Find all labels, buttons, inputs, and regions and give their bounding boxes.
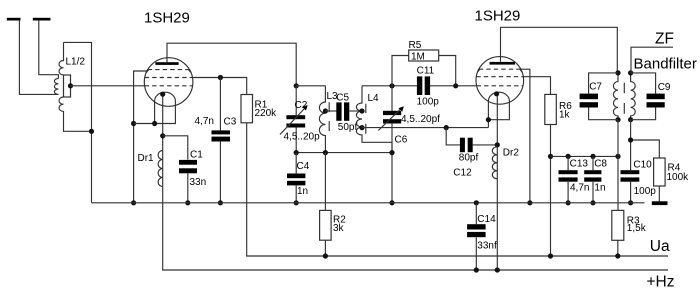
wire C13 to ground — [567, 182, 569, 203]
node ground rail V1 column — [131, 200, 136, 205]
capacitor C13 — [559, 170, 578, 174]
bandfilter secondary coil — [631, 73, 636, 120]
resistor R5 — [392, 56, 456, 86]
wire g3/filament return V1 — [134, 71, 147, 203]
node secondary top — [628, 70, 633, 75]
bandfilter primary coil — [613, 73, 618, 120]
node filament top V2 — [494, 91, 499, 96]
wire grid1 tap to tube V1 — [71, 85, 145, 87]
svg-text:C10: C10 — [633, 160, 652, 171]
resistor R6 — [545, 94, 557, 124]
wire screen V1 to R1/C3 — [193, 78, 247, 95]
bandfilter core — [623, 83, 625, 114]
node tank bottom C4 — [294, 150, 299, 155]
node Dr2 top — [495, 142, 500, 147]
svg-text:+Hz: +Hz — [647, 274, 675, 291]
capacitor C2 arrow — [280, 109, 305, 135]
node C3 ground — [218, 200, 223, 205]
grid g1 V1 dashed — [145, 85, 193, 87]
svg-text:C9: C9 — [658, 82, 671, 93]
ground rail — [92, 202, 645, 204]
capacitor C11 — [417, 76, 422, 95]
ground terminal bar R4 — [652, 201, 668, 205]
wire L1/2 top loop — [64, 42, 92, 202]
inductor Dr1 — [158, 151, 163, 187]
node tank bottom right — [389, 150, 394, 155]
wire C5 left — [325, 110, 337, 112]
wire secondary bottom to C10/R4 — [631, 120, 660, 171]
wire C9 top — [631, 73, 656, 94]
wire C4 to ground — [295, 185, 297, 203]
anode plate V2 — [490, 62, 516, 65]
wire C6 upper lead — [391, 86, 393, 112]
svg-text:50pf: 50pf — [338, 122, 358, 133]
svg-text:1k: 1k — [559, 110, 571, 121]
wire C3 upper lead — [219, 78, 221, 131]
svg-text:100p: 100p — [417, 97, 440, 108]
svg-text:Bandfilter: Bandfilter — [634, 56, 697, 73]
node filament top V1 — [160, 92, 165, 97]
node C10 ground — [628, 200, 633, 205]
wire primary bottom down — [617, 120, 619, 211]
wire supply row to bandfilter — [551, 155, 619, 157]
svg-text:L4: L4 — [368, 93, 380, 104]
node C13 top — [566, 154, 571, 159]
svg-text:C3: C3 — [224, 117, 237, 128]
grid g2 V2 dashed — [476, 76, 523, 78]
wire C12 left lead — [446, 128, 460, 145]
svg-text:33nf: 33nf — [477, 240, 497, 251]
svg-text:C14: C14 — [477, 214, 496, 225]
svg-text:80pf: 80pf — [459, 152, 479, 163]
node filament rail join V1 — [131, 121, 136, 126]
node C14 +Hz — [474, 267, 479, 272]
tube V1 1SH29 envelope — [144, 58, 193, 107]
node primary top — [615, 70, 620, 75]
node R6/Ua — [548, 253, 553, 258]
svg-text:1n: 1n — [594, 182, 605, 193]
grid g3 V1 dashed — [148, 69, 190, 71]
wire R4 bottom — [658, 186, 660, 201]
svg-text:C2: C2 — [295, 100, 308, 111]
resistor R4 — [654, 158, 666, 186]
wire R2 bottom to Ua rail — [324, 240, 326, 256]
node L4 tap lower — [359, 125, 364, 130]
wire C2 upper lead — [295, 86, 297, 115]
node filament legs V2 — [486, 117, 491, 122]
svg-text:4,5..20pf: 4,5..20pf — [401, 114, 440, 125]
svg-text:Dr2: Dr2 — [503, 147, 520, 158]
node primary bottom — [615, 117, 620, 122]
wire screen V2 to R6 — [523, 77, 550, 95]
node C13 ground — [566, 200, 571, 205]
svg-text:C13: C13 — [570, 159, 589, 170]
capacitor C1 — [179, 160, 197, 165]
wire tank bottom — [296, 153, 392, 203]
svg-text:220k: 220k — [255, 108, 278, 119]
node filament left leg V1 — [152, 121, 157, 126]
antenna terminal 2 — [33, 18, 51, 21]
node C3 junction — [218, 75, 223, 80]
resistor R3 — [612, 210, 624, 240]
node C10 top — [628, 137, 633, 142]
filament V1 right leg — [134, 101, 176, 124]
wire C14 upper lead — [475, 203, 477, 224]
resistor R2 — [320, 210, 332, 240]
wire C3 to ground — [219, 141, 221, 203]
svg-text:1SH29: 1SH29 — [144, 10, 190, 27]
wire C14 lower lead to +Hz — [475, 237, 477, 270]
filament V2 right leg — [488, 101, 509, 120]
resistor R1 — [241, 95, 253, 123]
node C8 ground — [590, 200, 595, 205]
node L1/2 bottom junction — [89, 129, 94, 134]
svg-text:1n: 1n — [297, 186, 308, 197]
capacitor C8 — [584, 170, 601, 174]
wire anode V2 to bandfilter — [501, 27, 618, 73]
filament V2 arc — [488, 92, 509, 101]
wire tap lower row to V2 filament — [362, 127, 488, 129]
wire C1 to ground rail — [187, 173, 189, 203]
capacitor C7 — [580, 94, 598, 100]
inductor L3 — [319, 86, 325, 153]
wire C7 bottom — [589, 108, 618, 120]
filament V1 left leg — [154, 101, 156, 124]
grid g2 V1 dashed — [145, 77, 193, 79]
wire C8 to ground — [592, 182, 594, 203]
node L4 tap C5 — [359, 108, 364, 113]
svg-text:C12: C12 — [453, 167, 472, 178]
wire g3 V2 to ground — [521, 69, 530, 203]
wire C13 upper lead — [567, 156, 569, 170]
coil L1/2 core box — [64, 75, 71, 97]
wire R6 bottom to Ua rail — [550, 125, 552, 257]
svg-text:R5: R5 — [409, 40, 422, 51]
wire C2 lower lead — [295, 127, 297, 152]
wire C7 top — [589, 73, 618, 94]
filament center tap V1 — [163, 94, 668, 270]
svg-text:1SH29: 1SH29 — [475, 8, 521, 25]
capacitor C12 — [460, 138, 465, 153]
node C8 top — [590, 154, 595, 159]
svg-text:33n: 33n — [190, 177, 207, 188]
tube V2 1SH29 envelope — [476, 57, 524, 105]
capacitor C2 variable plates — [286, 115, 305, 119]
core L4 — [365, 104, 367, 134]
filament V2 left leg — [487, 101, 489, 128]
wire antenna2 down to coupling top — [39, 21, 59, 79]
node tank2 top — [389, 83, 394, 88]
grid g3 V2 end hooks — [477, 69, 522, 72]
capacitor C5 — [336, 102, 341, 120]
grid g3 V2 dashed — [479, 68, 521, 70]
capacitor C6 variable plates — [383, 111, 401, 115]
wire tank1 top — [296, 85, 325, 87]
wire L3 to R2 — [324, 153, 326, 211]
node Dr2 +Hz — [495, 267, 500, 272]
svg-text:3k: 3k — [333, 223, 345, 234]
node g3 ground — [527, 200, 532, 205]
capacitor C6 arrow — [378, 109, 401, 131]
inductor Dr2 — [492, 147, 497, 179]
svg-text:Dr1: Dr1 — [138, 153, 155, 164]
svg-text:C4: C4 — [297, 161, 310, 172]
coil L1/2 main winding lower — [59, 97, 91, 131]
node tank2 ground — [389, 200, 394, 205]
node center tap junction V1 — [160, 133, 165, 138]
svg-text:C5: C5 — [336, 93, 349, 104]
node bandfilter bottom supply — [615, 154, 620, 159]
svg-text:1M: 1M — [411, 52, 425, 63]
wire C4 upper lead — [295, 153, 297, 174]
node tank bottom L3/R2 — [323, 150, 328, 155]
wire R3 bottom to Ua — [617, 240, 619, 256]
coil L1/2 main winding upper — [59, 42, 63, 74]
svg-text:L1/2: L1/2 — [66, 57, 86, 68]
svg-text:C1: C1 — [190, 149, 203, 160]
inductor L4 — [356, 86, 392, 153]
node L3 tap — [323, 108, 328, 113]
svg-text:4,7n: 4,7n — [570, 182, 589, 193]
node secondary bottom — [628, 117, 633, 122]
wire C5 right — [349, 110, 362, 112]
coil L1/2 coupling winding — [54, 79, 58, 95]
wire tank2 top / grid2 row — [362, 85, 476, 87]
svg-text:C11: C11 — [417, 65, 435, 76]
wire C9 bottom — [631, 108, 656, 120]
node tank1 top — [294, 83, 299, 88]
node tap L1/2 — [68, 83, 73, 88]
svg-text:Ua: Ua — [650, 238, 670, 255]
wire anode V1 to tank1 top — [167, 43, 296, 86]
node R6 bottom junction — [548, 154, 553, 159]
node R5/C11/grid junction — [453, 83, 458, 88]
core L3 — [328, 102, 330, 131]
svg-text:ZF: ZF — [655, 31, 674, 48]
filament V1 arc — [155, 92, 176, 101]
grid g1 V2 dashed — [477, 85, 523, 87]
anode plate V1 — [155, 62, 178, 65]
capacitor C3 — [212, 130, 231, 134]
node R2 Ua — [323, 253, 328, 258]
grid g3 V1 end hooks — [146, 70, 191, 73]
filament center tap V2 — [496, 94, 498, 270]
node C14 top — [474, 200, 479, 205]
svg-text:C6: C6 — [395, 135, 408, 146]
node C12 junction — [444, 125, 449, 130]
wire ZF output — [631, 47, 673, 73]
capacitor C9 — [647, 94, 665, 100]
node R3 Ua — [615, 253, 620, 258]
svg-text:100k: 100k — [667, 172, 690, 183]
node C4 ground — [294, 200, 299, 205]
capacitor C10 — [621, 170, 640, 174]
svg-text:C7: C7 — [589, 82, 602, 93]
wire C8 upper lead — [592, 156, 594, 170]
svg-text:4,7n: 4,7n — [195, 116, 214, 127]
node C1 ground — [185, 200, 190, 205]
wire antenna1 down to coupling bottom — [19, 21, 58, 95]
svg-text:1,5k: 1,5k — [627, 223, 647, 234]
svg-text:C8: C8 — [594, 159, 607, 170]
wire C12 right lead — [473, 144, 498, 146]
capacitor C14 — [467, 224, 486, 229]
svg-text:4,5..20p: 4,5..20p — [284, 132, 321, 143]
wire R1 bottom to Ua rail — [247, 123, 668, 256]
wire C10 to ground — [630, 182, 632, 203]
capacitor C4 — [287, 174, 305, 179]
wire C6 lower lead — [391, 123, 393, 153]
svg-text:100p: 100p — [634, 186, 657, 197]
antenna terminal 1 — [7, 18, 21, 21]
wire center tap to C1 — [163, 136, 188, 160]
